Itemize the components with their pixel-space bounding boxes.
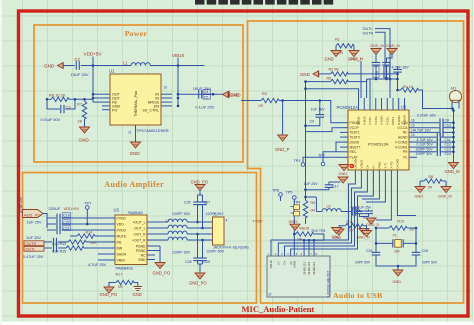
svg-text:TP7: TP7 — [84, 200, 92, 205]
wire — [63, 65, 75, 67]
net label GND_H wire — [350, 57, 364, 98]
svg-text:C3: C3 — [66, 105, 72, 110]
svg-text:HOST: HOST — [391, 117, 395, 125]
ground above R10 — [289, 220, 301, 230]
svg-text:X-TI: X-TI — [383, 163, 387, 169]
wire — [367, 79, 370, 98]
svg-text:C10: C10 — [445, 124, 451, 128]
svg-text:AUD_PO: AUD_PO — [24, 212, 40, 217]
svg-text:PCM2912A: PCM2912A — [368, 142, 389, 147]
capacitor C30 4.7UF — [392, 65, 410, 90]
svg-text:PGND: PGND — [136, 244, 146, 248]
svg-text:NC: NC — [403, 131, 408, 135]
svg-text:R3: R3 — [262, 92, 267, 96]
svg-text:1UF 16V: 1UF 16V — [311, 107, 326, 111]
svg-text:C13: C13 — [445, 147, 451, 151]
svg-text:TP4: TP4 — [294, 200, 301, 204]
svg-text:V-CCI: V-CCI — [368, 117, 372, 125]
svg-text:PAM8403: PAM8403 — [128, 211, 143, 215]
wire node to C17 — [306, 187, 330, 189]
test point TP5 — [286, 191, 297, 250]
svg-text:PAM8403: PAM8403 — [116, 265, 134, 270]
wire shield stubs up — [304, 240, 314, 250]
svg-text:R10 TP8: R10 TP8 — [312, 229, 326, 233]
labels 220UF VDD+5V — [49, 206, 80, 211]
svg-text:PVDD: PVDD — [117, 228, 127, 232]
test point TP1 — [294, 157, 341, 166]
ground below U1 — [130, 142, 141, 156]
ground right of connector — [332, 228, 342, 240]
svg-text:X1: X1 — [393, 234, 397, 238]
microphone M1 — [450, 87, 462, 109]
svg-text:+OUT_L: +OUT_L — [133, 220, 146, 224]
wire mic bias bus — [367, 78, 398, 80]
capacitor C9 — [306, 101, 326, 126]
junction — [46, 98, 49, 101]
svg-text:V-CCL: V-CCL — [385, 116, 389, 125]
svg-text:C29: C29 — [204, 260, 211, 264]
svg-text:VCCP: VCCP — [350, 126, 360, 130]
capacitor C5 — [203, 95, 211, 100]
svg-text:C16 1UF 25V: C16 1UF 25V — [351, 205, 372, 209]
wire — [453, 109, 455, 111]
wire — [81, 65, 131, 67]
svg-text:16: 16 — [411, 119, 415, 123]
svg-text:C25: C25 — [366, 249, 372, 253]
wire — [93, 93, 102, 95]
svg-text:11: 11 — [128, 130, 132, 134]
svg-text:GND_P: GND_P — [275, 147, 290, 152]
svg-text:D+: D+ — [365, 164, 369, 168]
svg-text:GND: GND — [415, 195, 424, 199]
resistor R12 — [376, 220, 416, 232]
wire GND_M rail — [453, 109, 455, 163]
svg-text:L6: L6 — [327, 205, 331, 209]
ground below crystal — [393, 270, 404, 284]
net label VDD+5V — [84, 52, 103, 66]
junctions on coil outputs — [196, 221, 199, 224]
svg-text:A-GND: A-GND — [380, 116, 384, 125]
capacitor C14 — [416, 148, 454, 157]
svg-text:PVDD: PVDD — [117, 216, 127, 220]
svg-text:220UF: 220UF — [49, 206, 62, 211]
svg-text:20K: 20K — [90, 241, 97, 245]
junction — [375, 242, 378, 245]
junction — [396, 78, 399, 81]
svg-text:M1: M1 — [451, 87, 456, 91]
net label OUTL — [363, 27, 391, 98]
ground GND_PO above caps — [191, 180, 209, 195]
svg-text:SHIELD1: SHIELD1 — [302, 262, 306, 275]
capacitor C7 — [382, 63, 391, 80]
ground below R7 — [79, 127, 90, 143]
svg-text:R12: R12 — [398, 220, 405, 224]
svg-text:GND_D: GND_D — [357, 235, 371, 239]
svg-text:C2: C2 — [75, 57, 81, 62]
svg-text:GND_PO: GND_PO — [189, 281, 207, 286]
svg-text:1UF 25V: 1UF 25V — [304, 182, 319, 186]
svg-text:TPS7A8001DSKR: TPS7A8001DSKR — [136, 128, 169, 133]
IC U2 PCM2912A — [337, 98, 418, 185]
svg-text:VDD+5V: VDD+5V — [84, 52, 103, 57]
svg-text:0R: 0R — [118, 285, 123, 289]
svg-text:GND_D: GND_D — [366, 223, 380, 227]
svg-text:D-: D- — [277, 261, 281, 264]
svg-text:V-COM1: V-COM1 — [395, 145, 408, 149]
svg-text:15: 15 — [411, 124, 415, 128]
svg-text:C5: C5 — [204, 95, 209, 99]
svg-text:1UF 25V: 1UF 25V — [27, 220, 42, 224]
svg-text:VDD: VDD — [117, 222, 125, 226]
junction — [451, 107, 454, 110]
svg-text:C26: C26 — [184, 201, 191, 205]
capacitor C3 — [41, 99, 76, 122]
svg-text:VBUS: VBUS — [299, 227, 310, 231]
svg-text:DGND: DGND — [357, 116, 361, 125]
test point TP6 — [272, 189, 282, 201]
wire caps to GND port — [178, 93, 224, 95]
capacitor C18 — [353, 207, 363, 216]
capacitor C13 — [416, 143, 454, 152]
power port GND (to R2) — [300, 71, 319, 77]
svg-text:OUTL: OUTL — [26, 247, 36, 251]
svg-text:MIC_Audio-Patient: MIC_Audio-Patient — [242, 304, 315, 314]
svg-text:C12: C12 — [445, 143, 451, 147]
svg-text:D-GND: D-GND — [353, 159, 357, 168]
svg-text:JACK-PH-K-S(LF)(SN): JACK-PH-K-S(LF)(SN) — [213, 246, 249, 250]
svg-text:4: 4 — [226, 219, 228, 223]
capacitor C17 — [325, 182, 340, 189]
net label VBUS — [172, 53, 185, 66]
svg-text:GND: GND — [300, 72, 310, 77]
power port GND (to R3) — [223, 92, 239, 98]
svg-text:0.1UF 50V: 0.1UF 50V — [417, 143, 434, 147]
resistor R15 — [44, 244, 107, 254]
svg-text:C19: C19 — [63, 214, 70, 218]
svg-text:-OUT_R: -OUT_R — [133, 232, 146, 236]
svg-text:V-BUS: V-BUS — [362, 116, 366, 125]
svg-text:TP2: TP2 — [318, 154, 325, 158]
svg-text:V-CCA: V-CCA — [374, 116, 378, 125]
capacitor C11 — [417, 133, 454, 142]
capacitor C29 bottom — [198, 240, 210, 264]
svg-text:C21: C21 — [63, 227, 70, 231]
svg-text:C17: C17 — [332, 185, 339, 189]
svg-text:OUTR: OUTR — [26, 242, 37, 246]
svg-text:C14: C14 — [445, 152, 451, 156]
ERC red marker — [350, 164, 355, 169]
wire left to GND_PO — [109, 283, 116, 288]
wire VDD rail down — [92, 66, 94, 103]
svg-text:PCM2912A: PCM2912A — [337, 105, 359, 110]
svg-text:0R: 0R — [311, 209, 316, 213]
svg-text:SHIELD2: SHIELD2 — [307, 262, 311, 275]
svg-text:R5: R5 — [327, 77, 332, 81]
ground earth style right of R17 — [133, 287, 143, 298]
svg-text:GND_M: GND_M — [370, 44, 384, 48]
svg-text:PLAY: PLAY — [350, 156, 359, 160]
capacitor C25 — [355, 249, 380, 264]
svg-text:PL: PL — [403, 156, 407, 160]
svg-text:Audio Amplifer: Audio Amplifer — [104, 180, 164, 189]
wire to GND_P — [282, 101, 284, 136]
svg-text:13: 13 — [411, 133, 415, 137]
svg-text:TP6: TP6 — [272, 189, 279, 193]
wire — [177, 66, 179, 106]
inductor L6 — [304, 196, 352, 212]
svg-text:PGND: PGND — [136, 249, 146, 253]
svg-text:100PF 50V: 100PF 50V — [416, 147, 434, 151]
wire — [319, 73, 331, 75]
svg-text:MUTE: MUTE — [117, 234, 127, 238]
svg-text:GND: GND — [339, 172, 348, 176]
svg-text:V-CCA: V-CCA — [397, 126, 408, 130]
svg-text:GND_M: GND_M — [445, 169, 461, 174]
svg-text:V-COM2: V-COM2 — [395, 140, 408, 144]
capacitor C4 — [199, 90, 211, 99]
svg-text:Power: Power — [125, 29, 148, 38]
ground right of R11 — [362, 231, 372, 237]
junction — [92, 93, 95, 96]
crystal X1 — [376, 234, 416, 254]
wire crystal verticals — [376, 181, 416, 252]
power port GND left — [44, 63, 63, 69]
inductor L3 — [155, 225, 205, 228]
svg-text:0.47UF 25V: 0.47UF 25V — [23, 255, 44, 259]
capacitor C19 — [47, 213, 107, 223]
svg-text:OUTR: OUTR — [363, 31, 374, 35]
Power section box — [34, 25, 243, 162]
wire long vertical — [305, 82, 307, 198]
capacitor C26 — [412, 249, 438, 264]
ground GND_M right of R8 — [438, 187, 452, 199]
svg-text:VBUS: VBUS — [172, 53, 185, 58]
svg-text:V-BUS: V-BUS — [359, 160, 363, 169]
svg-text:GND: GND — [130, 151, 141, 156]
svg-text:120PF 50V: 120PF 50V — [172, 212, 191, 216]
svg-text:INL: INL — [117, 240, 122, 244]
svg-text:MSETT: MSETT — [350, 145, 361, 149]
svg-text:DGND: DGND — [350, 140, 360, 144]
connector J1 jack — [205, 212, 249, 249]
junction — [375, 78, 378, 81]
net label box OUTR — [24, 241, 44, 246]
capacitor C12 — [417, 138, 454, 147]
wires SHDN VREF stubs — [98, 254, 107, 260]
wire — [306, 81, 331, 83]
svg-text:GND: GND — [325, 56, 334, 61]
resistor R1 — [335, 38, 354, 56]
ground above C17 — [338, 177, 348, 183]
wire — [347, 73, 397, 75]
inductor L2 — [155, 219, 205, 223]
resistor R14 — [70, 231, 107, 245]
svg-text:GND: GND — [289, 220, 298, 224]
capacitor C2 — [71, 57, 89, 77]
svg-text:R1: R1 — [335, 38, 340, 42]
capacitor C10 row15 — [417, 123, 454, 132]
svg-text:UX60SC-MB-5ST: UX60SC-MB-5ST — [327, 270, 331, 296]
resistor R7 — [77, 99, 87, 127]
capacitor C20 — [47, 220, 107, 229]
wire port to caps — [43, 214, 47, 229]
junction — [92, 64, 95, 67]
svg-text:R17: R17 — [116, 273, 123, 277]
svg-text:GND: GND — [229, 93, 239, 98]
svg-text:SS_CTRL: SS_CTRL — [142, 108, 159, 112]
svg-text:D+: D+ — [283, 260, 287, 264]
svg-text:R8: R8 — [429, 175, 434, 179]
svg-text:J2: J2 — [268, 293, 272, 297]
ground GND_D — [366, 218, 380, 227]
ground GND_M pair — [370, 44, 400, 62]
test point TP4 connectors — [291, 200, 301, 216]
svg-text:4.7UF 16V: 4.7UF 16V — [417, 138, 434, 142]
svg-text:GND_PO: GND_PO — [153, 270, 171, 275]
svg-text:10UF 25V: 10UF 25V — [193, 86, 211, 91]
svg-text:J1: J1 — [213, 212, 217, 216]
wire PGND to gnd — [155, 246, 160, 263]
resistor R4 — [398, 85, 453, 109]
svg-text:GND: GND — [293, 260, 297, 268]
svg-text:2K: 2K — [78, 119, 83, 124]
svg-text:U1: U1 — [109, 69, 115, 74]
Audio to USB section box — [248, 21, 464, 303]
wire — [241, 101, 340, 123]
svg-text:C20: C20 — [63, 221, 70, 225]
page white margins — [0, 322, 474, 325]
svg-text:VBUS: VBUS — [269, 260, 273, 268]
svg-text:L1: L1 — [123, 61, 128, 66]
svg-text:D-GND: D-GND — [395, 159, 399, 168]
resistor R8 — [420, 175, 446, 189]
svg-text:GND_M: GND_M — [386, 44, 400, 48]
net label OUTR — [363, 31, 386, 79]
resistor R5 — [327, 77, 349, 84]
resistor R17 below chip — [116, 273, 135, 289]
svg-text:C9: C9 — [310, 120, 315, 124]
ground left of R8 — [415, 187, 426, 199]
svg-text:X-TO: X-TO — [389, 161, 393, 169]
svg-text:PSEL: PSEL — [377, 161, 381, 169]
junction — [177, 93, 180, 96]
wire — [306, 89, 359, 98]
svg-text:GND: GND — [393, 280, 402, 284]
svg-text:1UF 25V: 1UF 25V — [26, 236, 41, 240]
resistor R2 — [329, 67, 349, 76]
test point TP2 — [318, 152, 340, 166]
svg-text:D-: D- — [371, 165, 375, 168]
ground GND_PO left of R17 — [100, 287, 118, 297]
svg-text:GND: GND — [44, 64, 55, 69]
Audio Amplifier section box — [23, 173, 257, 304]
svg-text:NC: NC — [141, 253, 146, 257]
svg-text:C24 R15: C24 R15 — [52, 250, 66, 254]
svg-text:120PF 50V: 120PF 50V — [206, 250, 225, 254]
capacitor C28 bottom — [185, 234, 202, 264]
ground left of R1 — [325, 51, 342, 62]
svg-text:120PF 50V: 120PF 50V — [172, 250, 191, 254]
value row14 — [414, 128, 454, 137]
svg-text:R9: R9 — [311, 201, 316, 205]
svg-text:U3: U3 — [114, 207, 120, 212]
svg-text:TX5V: TX5V — [253, 219, 263, 224]
svg-text:GND_PO: GND_PO — [191, 180, 209, 185]
svg-text:INR: INR — [117, 246, 123, 250]
svg-text:GND_H: GND_H — [350, 57, 364, 61]
svg-text:M-BIAS: M-BIAS — [403, 115, 407, 125]
top dark toolbar fragment — [195, 0, 333, 5]
svg-text:GND: GND — [133, 292, 142, 297]
svg-text:SHDN: SHDN — [117, 252, 127, 256]
wire right to GND — [134, 283, 138, 287]
svg-text:REC: REC — [350, 150, 358, 154]
svg-text:-OUT_L: -OUT_L — [133, 226, 145, 230]
test point TP7 — [84, 200, 92, 225]
junction — [304, 80, 307, 83]
inductor L5 — [155, 237, 205, 240]
svg-text:GND: GND — [332, 235, 341, 239]
svg-text:C8: C8 — [445, 119, 450, 123]
svg-text:+OUT_R: +OUT_R — [132, 238, 146, 242]
svg-text:THERMAL_Pad: THERMAL_Pad — [134, 91, 138, 117]
wire — [93, 97, 102, 99]
ground GND_D second — [357, 229, 371, 240]
ground under DGND — [336, 142, 349, 176]
ground GND_H right of R1 — [348, 51, 363, 62]
svg-text:TEST1: TEST1 — [350, 131, 360, 135]
svg-text:TP5: TP5 — [286, 191, 293, 195]
svg-text:Audio to USB: Audio to USB — [333, 291, 383, 300]
capacitor C6 — [372, 63, 381, 80]
ground GND_M bottom rail — [445, 163, 461, 174]
junction — [397, 265, 400, 268]
capacitor C8 row16 — [417, 114, 454, 127]
svg-text:VDD+5V: VDD+5V — [64, 206, 80, 211]
svg-text:4.7UF 25V: 4.7UF 25V — [88, 263, 107, 267]
power port GND right — [224, 91, 242, 97]
inductor L1 — [123, 61, 150, 66]
svg-text:GND_PO: GND_PO — [100, 292, 118, 297]
svg-text:0R: 0R — [428, 185, 433, 189]
capacitor C27 top — [198, 195, 211, 228]
svg-text:PR: PR — [403, 150, 408, 154]
svg-text:20PF 50V: 20PF 50V — [422, 261, 438, 265]
IC U3 PAM8403 — [107, 207, 155, 270]
svg-text:D-GND: D-GND — [397, 116, 401, 125]
junction — [293, 233, 296, 236]
svg-text:GND_M: GND_M — [438, 195, 452, 199]
svg-text:0R: 0R — [259, 104, 264, 108]
port AUD_PO — [23, 210, 44, 218]
svg-text:10: 10 — [164, 86, 168, 90]
resistor R11 — [339, 220, 367, 232]
svg-text:SHIELD3: SHIELD3 — [312, 262, 316, 275]
resistor R9 — [303, 198, 315, 224]
wire — [347, 79, 366, 82]
resistor R10 TP8 — [294, 229, 325, 242]
wire — [306, 128, 341, 132]
svg-text:0.01uF 50V: 0.01uF 50V — [41, 118, 61, 122]
svg-text:C27: C27 — [204, 201, 211, 205]
svg-text:AGND: AGND — [398, 135, 408, 139]
ground GND_PO below caps — [189, 261, 207, 286]
svg-text:4.7UF 16V: 4.7UF 16V — [392, 65, 410, 69]
svg-text:C26: C26 — [422, 249, 428, 253]
capacitor C16 pair — [351, 205, 373, 218]
svg-text:TESTV: TESTV — [350, 135, 361, 139]
junction — [396, 89, 399, 92]
